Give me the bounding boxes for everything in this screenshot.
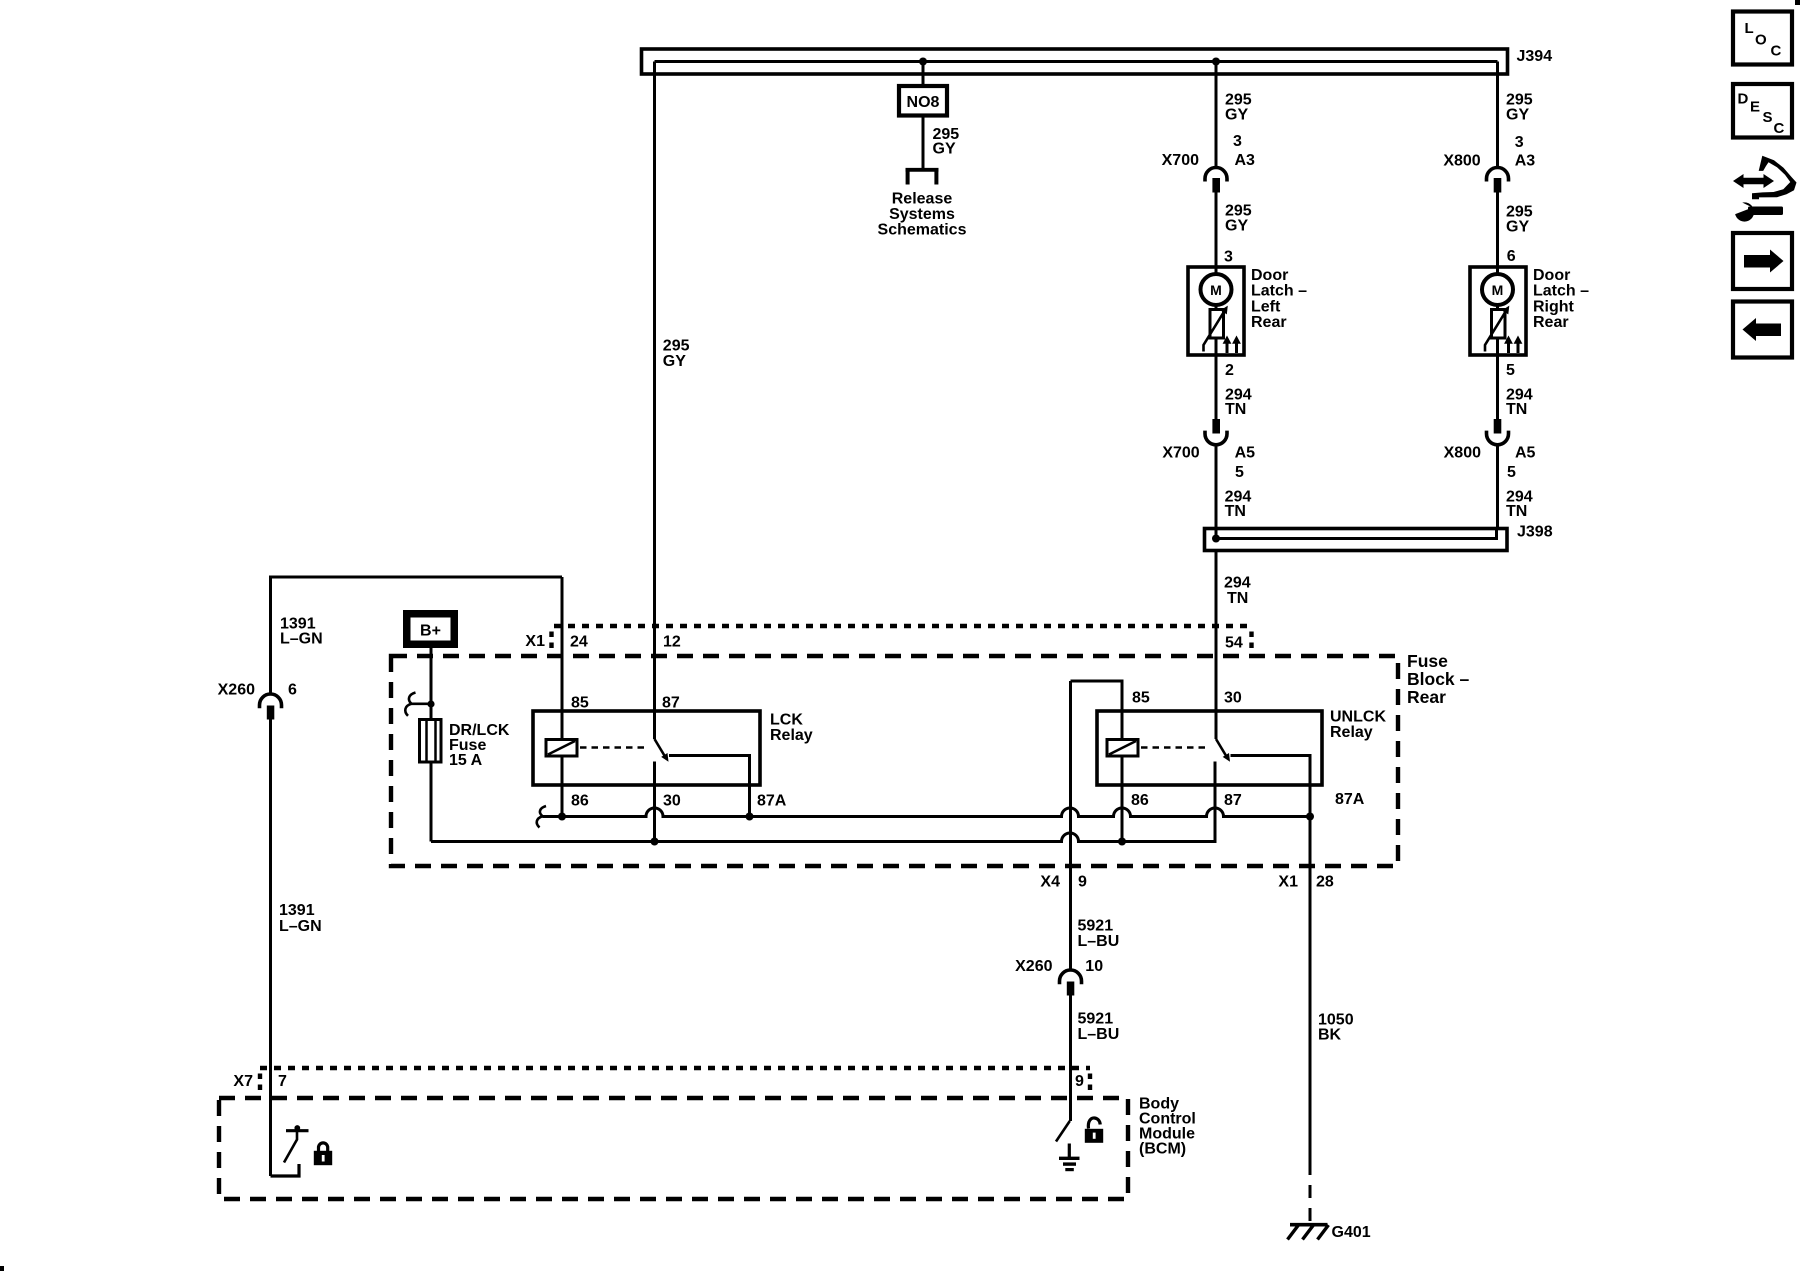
relay LCK switch blade [655, 739, 669, 762]
wire Door Latch Left pin 2 to X700-A5, circuit 294 TN [1215, 355, 1218, 419]
svg-text:10: 10 [1085, 958, 1103, 975]
wire J394 to NO8 [922, 62, 925, 87]
svg-text:A3: A3 [1515, 153, 1536, 170]
svg-text:Systems: Systems [889, 206, 955, 223]
svg-text:15 A: 15 A [449, 752, 483, 769]
svg-text:X700: X700 [1162, 445, 1199, 462]
svg-text:B+: B+ [420, 623, 441, 640]
open padlock icon (unlock) [1085, 1118, 1103, 1143]
svg-text:Rear: Rear [1251, 314, 1287, 331]
connector X260 pin 10 (inline) [1015, 958, 1103, 996]
svg-text:GY: GY [663, 353, 686, 370]
svg-text:Door: Door [1251, 267, 1288, 284]
body control module dashed outline [219, 1098, 1128, 1199]
svg-text:294: 294 [1224, 575, 1251, 592]
wire X800-A5 to bus J398, circuit 294 TN [1496, 445, 1499, 529]
svg-text:X7: X7 [233, 1073, 253, 1090]
svg-text:5921: 5921 [1078, 918, 1114, 935]
svg-text:85: 85 [571, 695, 589, 712]
svg-text:3: 3 [1515, 134, 1524, 151]
icon button DESC [1733, 84, 1792, 138]
wire stubs inside left latch [1215, 267, 1218, 355]
junction node wire A / LCK 87A [746, 813, 754, 821]
wire B+ to DR/LCK fuse [430, 648, 433, 720]
svg-text:A3: A3 [1235, 152, 1256, 169]
svg-text:Release: Release [892, 191, 953, 208]
svg-text:X260: X260 [1015, 958, 1052, 975]
svg-text:TN: TN [1225, 401, 1246, 418]
bus J394 [642, 49, 1508, 74]
wire X700-A3 to Door Latch Left Rear pin 3, circuit 295 GY [1215, 193, 1218, 268]
svg-text:Right: Right [1533, 299, 1575, 316]
label UNLCK relay [1330, 709, 1386, 742]
wire NO8 to off-page fork, circuit 295 GY [922, 116, 925, 170]
svg-text:L–GN: L–GN [279, 918, 322, 935]
relay LCK coil [546, 740, 577, 757]
svg-text:X1: X1 [1278, 874, 1298, 891]
svg-text:G401: G401 [1332, 1224, 1371, 1241]
svg-text:86: 86 [1131, 792, 1149, 809]
svg-text:2: 2 [1225, 362, 1234, 379]
BCM unlock driver switch [1056, 1121, 1070, 1142]
connector X700 A5 (inline) [1162, 419, 1255, 481]
svg-text:28: 28 [1316, 874, 1334, 891]
svg-text:GY: GY [933, 141, 956, 158]
svg-text:Rear: Rear [1407, 687, 1446, 707]
relay UNLCK terminal labels [1131, 690, 1365, 810]
wire UNLCK 85 leg down to BCM (X4 pin 9) [1069, 681, 1072, 970]
svg-text:Latch –: Latch – [1251, 283, 1307, 300]
wire Door Latch Right pin 5 to X800-A5, circuit 294 TN [1496, 355, 1499, 419]
svg-text:D: D [1738, 91, 1749, 108]
wire A: 86/87A tie line with hops [537, 806, 1310, 828]
page corner mark top right [1795, 0, 1800, 5]
svg-text:X1: X1 [525, 633, 545, 650]
junction node at fuse feed [427, 700, 434, 707]
svg-text:87: 87 [662, 695, 680, 712]
splice continuation squiggle at fuse feed [405, 693, 431, 716]
relay UNLCK coil-switch dashed link [1141, 746, 1210, 749]
svg-text:6: 6 [1507, 248, 1516, 265]
svg-text:Rear: Rear [1533, 314, 1569, 331]
wire UNLCK 85 feed bridge [1071, 681, 1123, 740]
svg-text:87: 87 [1224, 792, 1242, 809]
svg-text:TN: TN [1227, 590, 1248, 607]
stray mark bottom left [0, 1266, 4, 1271]
svg-text:30: 30 [1224, 690, 1242, 707]
label body control module [1139, 1096, 1196, 1158]
double up arrows (right latch) [1509, 341, 1519, 353]
relay UNLCK switch blade [1216, 739, 1230, 762]
connector X260 pin 6 (inline) [218, 682, 297, 720]
svg-text:X800: X800 [1444, 445, 1481, 462]
wire LCK coil to terminal 86 [561, 756, 564, 817]
svg-text:Relay: Relay [1330, 724, 1373, 741]
BCM lock driver switch [271, 1125, 309, 1176]
svg-text:3: 3 [1233, 133, 1242, 150]
svg-text:Latch –: Latch – [1533, 283, 1589, 300]
svg-text:(BCM): (BCM) [1139, 1141, 1186, 1158]
junction node wire A / UNLCK 87A [1306, 813, 1314, 821]
relay UNLCK box [1097, 711, 1322, 785]
relay LCK switch contact line to 87A [669, 756, 750, 817]
bus J398 [1205, 529, 1508, 551]
svg-text:J394: J394 [1517, 48, 1553, 65]
svg-text:86: 86 [571, 793, 589, 810]
wire X800-A3 to Door Latch Right Rear pin 6, circuit 295 GY [1496, 193, 1499, 268]
svg-text:UNLCK: UNLCK [1330, 709, 1386, 726]
junction node wire B / LCK 30 [651, 838, 659, 846]
junction node wire B / UNLCK 86 [1118, 838, 1126, 846]
wire J394 to connector X700 pin A3, circuit 295 GY [1215, 62, 1218, 168]
svg-text:C: C [1774, 120, 1785, 137]
svg-text:S: S [1763, 109, 1773, 126]
icon diagnostic arrows and wrench [1733, 156, 1797, 222]
door latch left rear component box [1188, 267, 1307, 355]
relay LCK terminal labels [571, 695, 787, 810]
wire X700-A5 to bus J398, circuit 294 TN [1215, 445, 1218, 539]
svg-text:Schematics: Schematics [878, 222, 967, 239]
svg-text:L: L [1745, 20, 1754, 37]
svg-text:L–BU: L–BU [1078, 1026, 1120, 1043]
fuse block rear dashed outline [391, 651, 1470, 866]
junction node wire A / LCK 86 [558, 813, 566, 821]
svg-text:X4: X4 [1040, 874, 1060, 891]
wire top horizontal feed from X260-6 to LCK relay 85 leg [271, 577, 563, 695]
svg-text:NO8: NO8 [907, 94, 940, 111]
svg-text:24: 24 [570, 634, 588, 651]
wire UNLCK terminal 87 stub [1214, 762, 1217, 842]
svg-text:A5: A5 [1515, 445, 1536, 462]
relay LCK coil-switch dashed link [580, 746, 649, 749]
svg-text:7: 7 [278, 1073, 287, 1090]
svg-text:GY: GY [1506, 107, 1529, 124]
icon button next (right arrow) [1733, 233, 1792, 289]
svg-text:O: O [1755, 32, 1767, 49]
svg-text:54: 54 [1225, 635, 1243, 652]
svg-text:L–GN: L–GN [280, 631, 323, 648]
svg-text:LCK: LCK [770, 712, 803, 729]
wire down to LCK relay terminal 85 (pin 24) [561, 577, 564, 740]
svg-text:M: M [1210, 282, 1222, 298]
motor M symbol (left latch) [1201, 274, 1232, 305]
actuator element (right latch) [1492, 310, 1506, 339]
svg-text:6: 6 [288, 682, 297, 699]
svg-text:GY: GY [1225, 107, 1248, 124]
connector X1 dotted line at fuse block [525, 626, 1251, 652]
junction node on J398 [1212, 535, 1220, 543]
wire X260-6 to BCM X7 pin 7, circuit 1391 L-GN [269, 720, 272, 1177]
wire J394 left leg to LCK relay terminal 87, circuit 295 GY [653, 62, 656, 740]
wire J398 to UNLCK relay terminal 30, circuit 294 TN [1215, 551, 1218, 740]
actuator element (left latch) [1210, 310, 1224, 339]
dashed wire segment to G401 [1309, 1162, 1312, 1224]
svg-text:GY: GY [1225, 218, 1248, 235]
svg-text:Block –: Block – [1407, 669, 1470, 689]
ground G401 symbol [1288, 1224, 1371, 1241]
wire UNLCK 87A to ground, circuit 1050 BK [1309, 817, 1312, 1163]
svg-text:87A: 87A [1335, 791, 1365, 808]
svg-text:BK: BK [1318, 1027, 1342, 1044]
svg-text:Left: Left [1251, 299, 1281, 316]
svg-text:J398: J398 [1517, 524, 1553, 541]
svg-text:85: 85 [1132, 690, 1150, 707]
connector X7 dotted line at BCM [233, 1068, 1090, 1094]
wire B: fuse to LCK 30 / UNLCK 86 / UNLCK 87 with hop [431, 785, 1215, 842]
svg-text:9: 9 [1075, 1073, 1084, 1090]
power feed B+ symbol [403, 610, 458, 648]
ground symbol inside BCM [1059, 1144, 1080, 1170]
svg-text:5: 5 [1235, 464, 1244, 481]
relay LCK box [533, 711, 760, 785]
svg-text:GY: GY [1506, 219, 1529, 236]
svg-text:87A: 87A [757, 793, 787, 810]
junction node on J394 at NO8 tap [919, 58, 927, 66]
svg-text:M: M [1492, 282, 1504, 298]
svg-text:TN: TN [1506, 401, 1527, 418]
svg-text:A5: A5 [1235, 445, 1256, 462]
icon button LOC [1733, 12, 1792, 65]
svg-text:C: C [1771, 43, 1782, 60]
off-page connector fork to Release Systems Schematics [878, 170, 967, 239]
wire UNLCK coil to terminal 86 [1121, 756, 1124, 842]
wire fuse output down to bus wire B [430, 762, 433, 842]
svg-text:E: E [1750, 99, 1760, 116]
motor M symbol (right latch) [1482, 274, 1513, 305]
svg-text:Relay: Relay [770, 727, 813, 744]
door latch right rear component box [1470, 267, 1589, 355]
wire LCK terminal 30 stub [653, 762, 656, 842]
closed padlock icon (lock) [314, 1143, 332, 1165]
svg-text:Fuse: Fuse [1407, 651, 1448, 671]
svg-text:X700: X700 [1162, 152, 1199, 169]
wire X4-9 labels 5921 L-BU [1078, 918, 1120, 951]
svg-text:TN: TN [1506, 503, 1527, 520]
connector X4 pin 9 label [1040, 874, 1087, 891]
svg-text:X800: X800 [1443, 153, 1480, 170]
svg-text:X260: X260 [218, 682, 255, 699]
double up arrows (left latch) [1227, 341, 1237, 353]
svg-text:1391: 1391 [279, 902, 315, 919]
svg-text:5921: 5921 [1078, 1011, 1114, 1028]
svg-text:3: 3 [1224, 249, 1233, 266]
svg-text:5: 5 [1507, 464, 1516, 481]
icon button back (left arrow) [1733, 302, 1792, 358]
svg-text:30: 30 [663, 793, 681, 810]
wire J394 right leg to connector X800 pin A3, circuit 295 GY [1496, 62, 1499, 168]
svg-text:5: 5 [1506, 362, 1515, 379]
relay UNLCK coil [1107, 740, 1138, 757]
svg-text:12: 12 [663, 634, 681, 651]
fuse DR/LCK 15 A [420, 720, 510, 770]
connector X800 A5 (inline) [1444, 419, 1536, 481]
label LCK relay [770, 712, 813, 745]
wire X260-10 to BCM pin 9, circuit 5921 L-BU [1069, 996, 1072, 1122]
svg-text:Door: Door [1533, 267, 1570, 284]
relay UNLCK switch contact line to 87A [1231, 756, 1311, 817]
junction node on J394 at X700 leg [1212, 58, 1220, 66]
connector X800 A3 (inline) [1443, 153, 1535, 193]
svg-text:9: 9 [1078, 874, 1087, 891]
connector X1 pin 28 label [1278, 874, 1333, 891]
svg-text:L–BU: L–BU [1078, 933, 1120, 950]
connector X700 A3 (inline) [1162, 152, 1255, 193]
wire stubs inside right latch [1496, 267, 1499, 355]
connector box NO8 [899, 86, 947, 116]
svg-text:TN: TN [1225, 503, 1246, 520]
svg-text:295: 295 [663, 338, 690, 355]
